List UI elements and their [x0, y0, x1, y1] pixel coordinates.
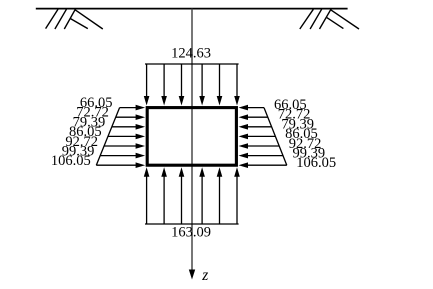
right load arrow 1	[247, 107, 264, 109]
bottom load arrow 6	[236, 176, 238, 224]
top load arrow 2	[163, 64, 165, 97]
left load arrow 2	[116, 116, 137, 118]
bottom load arrow 1	[146, 176, 148, 224]
ground hatch right line 4	[331, 10, 359, 29]
top load distribution line	[145, 63, 239, 65]
left load arrow 5	[104, 145, 137, 147]
ground hatch left line 2	[55, 9, 67, 29]
structure rectangle	[147, 108, 236, 166]
svg-text:106.05: 106.05	[51, 153, 91, 169]
right load slant edge	[264, 108, 287, 166]
bottom load distribution line	[145, 223, 239, 225]
left load slant edge	[96, 108, 119, 166]
svg-text:106.05: 106.05	[296, 155, 336, 171]
left load arrow 6	[100, 155, 136, 157]
ground hatch right line 3	[320, 9, 331, 29]
left load arrow 1	[120, 107, 137, 109]
right load arrow 6	[247, 155, 283, 157]
top load arrow 4	[201, 64, 203, 97]
ground surface line	[36, 8, 348, 10]
right load arrow 5	[247, 145, 279, 147]
ground hatch right line 5	[327, 18, 344, 29]
center axis line (z axis)	[191, 9, 193, 271]
ground hatch right line 2	[310, 9, 322, 29]
ground hatch left line 5	[71, 19, 88, 29]
bottom load arrow 3	[181, 176, 183, 224]
right load arrow 2	[247, 116, 268, 118]
top load arrow 5	[219, 64, 221, 97]
ground hatch left line 4	[75, 10, 103, 29]
left load arrow 7	[96, 164, 136, 166]
top load arrow 3	[181, 64, 183, 97]
right load arrow 7	[247, 164, 287, 166]
bottom load arrow 2	[163, 176, 165, 224]
bottom load arrow 4	[201, 176, 203, 224]
left load arrow 3	[112, 126, 137, 128]
svg-text:z: z	[201, 267, 208, 284]
left load arrow 4	[108, 135, 137, 137]
right load arrow 3	[247, 126, 272, 128]
ground hatch left line 3	[64, 9, 75, 29]
z axis arrowhead	[189, 270, 195, 280]
top load arrow 6	[236, 64, 238, 97]
ground hatch left line 1	[46, 9, 58, 28]
bottom load arrow 5	[219, 176, 221, 224]
svg-text:163.09: 163.09	[171, 225, 211, 241]
top load arrow 1	[146, 64, 148, 97]
svg-text:124.63: 124.63	[171, 46, 211, 62]
ground hatch right line 1	[300, 9, 314, 29]
right load arrow 4	[247, 135, 275, 137]
